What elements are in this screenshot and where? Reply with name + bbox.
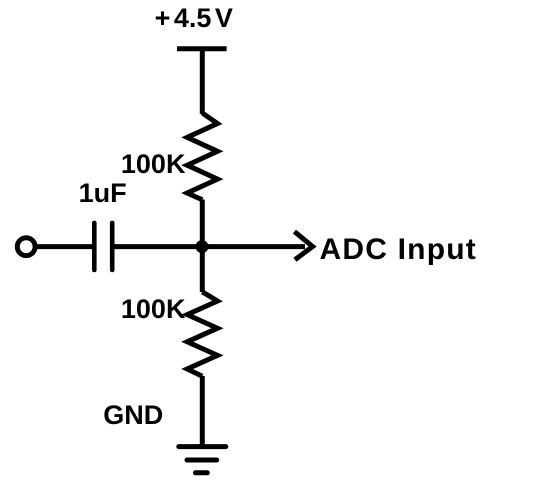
label GND [103,402,163,429]
wire R2 to ground [200,376,205,447]
wire R1 to R2 through node [200,200,205,293]
label R2 value 100K [121,296,186,323]
node junction dot [196,240,209,253]
resistor R2 100K [187,292,217,376]
wire terminal to C1 [36,244,92,249]
wire rail to R1 [200,49,205,114]
power rail +4.5V bar [177,46,227,51]
capacitor C1 1uF [94,223,112,270]
input terminal [17,238,35,256]
resistor R1 100K [187,113,217,200]
label ADC Input [320,235,477,265]
label R1 value 100K [121,151,186,178]
label C1 value 1uF [79,180,127,207]
arrow head ADC output [294,232,312,260]
wire C1 to node and ADC arrow shaft [114,244,305,249]
label +4.5V [155,5,233,32]
ground [179,447,226,473]
